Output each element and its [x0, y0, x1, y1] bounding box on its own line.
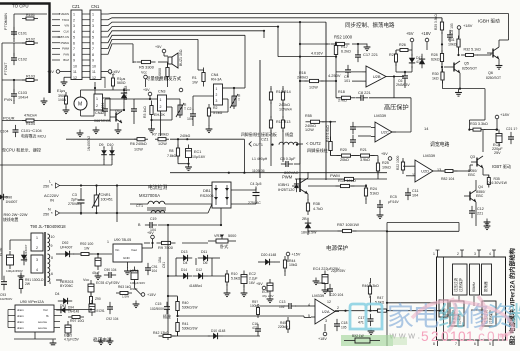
svg-text:4.016V: 4.016V [311, 52, 323, 56]
svg-text:3: 3 [73, 24, 75, 28]
wire [176, 257, 178, 259]
op-amp U2D [411, 160, 437, 182]
wire [145, 79, 147, 87]
svg-text:R24: R24 [370, 187, 377, 191]
vertical feed to SMPS [116, 186, 118, 223]
svg-text:过热保护: 过热保护 [458, 277, 463, 292]
terminal +15V mid [286, 252, 290, 256]
svg-text:0: 0 [458, 329, 466, 344]
wire [170, 138, 187, 140]
svg-text:EBC: EBC [468, 173, 476, 177]
wire [9, 240, 11, 250]
svg-text:四脚接线柱: 四脚接线柱 [241, 132, 260, 137]
svg-text:102/500V: 102/500V [0, 297, 12, 301]
wire [352, 43, 358, 45]
svg-text:CZ1: CZ1 [72, 4, 81, 9]
capacitor C5 [281, 161, 293, 167]
svg-text:同步控制、振荡电路: 同步控制、振荡电路 [345, 21, 395, 29]
svg-text:250: 250 [43, 213, 49, 217]
chevron OUT1 [249, 142, 252, 147]
wire PVN [2, 79, 26, 81]
svg-text:4: 4 [489, 252, 491, 256]
svg-text:过压过流: 过压过流 [453, 277, 458, 292]
electrolytic EC4 [322, 271, 328, 288]
wire [223, 98, 229, 100]
wire [270, 102, 272, 118]
resistor R47 5.6k [373, 309, 391, 312]
svg-text:C101~C104: C101~C104 [21, 129, 42, 133]
wire [109, 117, 111, 121]
wire down C101 [13, 14, 15, 36]
wire PWM row [295, 178, 387, 180]
svg-text:PVN: PVN [4, 97, 12, 102]
wire [458, 48, 460, 55]
svg-text:11: 11 [92, 70, 96, 74]
capacitor C90 104 [104, 272, 116, 278]
svg-text:250: 250 [43, 185, 49, 189]
svg-text:+5V: +5V [155, 45, 162, 49]
resistor R63 [116, 292, 132, 295]
capacitor C103 [11, 89, 17, 101]
capacitor C1 104 [131, 104, 137, 116]
svg-text:9: 9 [73, 59, 75, 63]
wire [134, 281, 136, 288]
AC line L [60, 185, 213, 187]
bus drop x278 [277, 27, 279, 57]
capacitor C18 105 [334, 319, 340, 331]
svg-text:1/4W: 1/4W [58, 98, 67, 102]
svg-text:BX2 1W: BX2 1W [352, 334, 364, 338]
svg-text:PWM: PWM [282, 175, 293, 180]
ground EC94 [133, 301, 140, 308]
wire [369, 278, 371, 283]
junction on y172 wire [228, 172, 230, 174]
bus wire from CN1 pin6 [101, 35, 245, 42]
svg-text:CT1: CT1 [136, 204, 143, 208]
AC line N to bridge [208, 204, 212, 213]
ground Q6 [496, 62, 503, 69]
capacitor C13 101 [284, 303, 296, 309]
svg-text:PTOMAIN: PTOMAIN [4, 13, 8, 30]
diode D10 [208, 333, 222, 339]
svg-text:source: source [38, 320, 47, 324]
wire [270, 86, 272, 90]
svg-text:R17: R17 [341, 45, 348, 49]
wire feedback row ext [394, 97, 411, 99]
wire Q3 collector up [482, 130, 484, 152]
wire +18V down [426, 42, 428, 50]
svg-text:drain: drain [17, 314, 24, 318]
resistor R57 100 1W [338, 229, 357, 232]
wire 78L05 out [142, 247, 153, 249]
svg-text:530kΩ/1W: 530kΩ/1W [182, 327, 198, 331]
svg-text:2: 2 [337, 306, 339, 310]
electrolytic EC93 [88, 280, 94, 296]
resistor R1 560 [112, 74, 115, 90]
svg-text:IGBH 驱动: IGBH 驱动 [478, 18, 500, 25]
svg-text:20kΩ: 20kΩ [340, 158, 349, 162]
zener diode D8 [305, 218, 311, 232]
thermistor RT2 [230, 93, 238, 109]
svg-text:U90 VIPer12A: U90 VIPer12A [20, 300, 44, 304]
wire [222, 335, 260, 337]
wire [371, 155, 378, 157]
wire [133, 99, 135, 104]
resistor R44 [283, 256, 286, 272]
svg-text:U2C: U2C [381, 130, 389, 135]
wire [177, 139, 179, 148]
svg-text:C2: C2 [187, 107, 192, 111]
regulator internal pin labels [115, 248, 137, 260]
bus wire from CN1 pin3 [101, 22, 300, 25]
secondary coil upper [48, 234, 50, 251]
svg-text:5: 5 [73, 36, 75, 40]
svg-text:FAN: FAN [64, 52, 69, 56]
svg-text:2: 2 [92, 18, 94, 22]
ground [377, 212, 384, 219]
svg-text:C5 0.3μF: C5 0.3μF [280, 157, 296, 161]
wire [56, 253, 60, 255]
svg-text:LM339: LM339 [423, 153, 436, 158]
svg-text:3: 3 [325, 319, 327, 323]
wire [110, 109, 124, 111]
svg-text:22μF/25V: 22μF/25V [331, 269, 346, 273]
svg-text:R46 3.3kΩ: R46 3.3kΩ [362, 284, 379, 288]
wire [93, 253, 112, 255]
svg-text:+5V: +5V [47, 70, 54, 74]
svg-text:C3: C3 [72, 193, 77, 197]
wire Q4 emitter [475, 202, 477, 226]
svg-text:*: * [51, 211, 53, 216]
long vertical x387 [386, 223, 388, 347]
capacitor C1b [102, 104, 108, 116]
resistor R24 51k [364, 184, 367, 200]
svg-text:6A 6800: 6A 6800 [158, 68, 162, 81]
resistor R9 7500 [157, 241, 176, 244]
svg-text:C12: C12 [477, 207, 484, 211]
svg-text:调宽电路: 调宽电路 [430, 141, 449, 148]
ground top U2A [313, 278, 320, 285]
svg-text:560Ω: 560Ω [117, 81, 126, 85]
diode D5 [121, 88, 127, 102]
svg-text:C19: C19 [150, 217, 156, 221]
svg-text:60kHz: 60kHz [472, 282, 476, 292]
wire R6 row left [66, 138, 137, 140]
long vertical wire x168 [167, 225, 169, 340]
terminal +5V top right [410, 38, 414, 42]
svg-text:105: 105 [341, 326, 347, 330]
connector CN1 [90, 10, 101, 80]
svg-text:C91: C91 [162, 262, 166, 268]
wire [208, 120, 210, 126]
electrolytic EC92 [95, 254, 101, 270]
wire [483, 174, 489, 176]
wire [177, 156, 179, 164]
ground EC3 [267, 296, 274, 303]
ground EC2 [241, 290, 248, 297]
wire [111, 159, 113, 165]
capacitor C17 221 [355, 50, 361, 62]
wire R25 to PWM row [377, 171, 379, 179]
wire [287, 256, 289, 262]
ground [364, 44, 371, 51]
svg-text:< OUT2: < OUT2 [306, 141, 321, 146]
svg-text:TxMAIN: TxMAIN [59, 12, 69, 16]
svg-text:R31: R31 [448, 38, 455, 42]
svg-text:1/2Wx4: 1/2Wx4 [279, 108, 292, 112]
svg-text:Q6: Q6 [488, 71, 493, 75]
inductor L heating coil [279, 142, 298, 144]
svg-text:6: 6 [51, 272, 53, 276]
svg-text:VR1: VR1 [214, 234, 221, 238]
resistor R25 [376, 159, 379, 175]
svg-text:4: 4 [36, 268, 38, 272]
wire [335, 57, 337, 68]
junction [94, 87, 96, 89]
svg-text:C90 104: C90 104 [104, 268, 117, 272]
terminal +18V top right [425, 38, 429, 42]
transformer core lines [43, 232, 45, 286]
capacitor C16 [255, 324, 261, 336]
svg-text:R97 10Ω: R97 10Ω [70, 319, 84, 323]
svg-text:烧线电置: 烧线电置 [3, 217, 19, 222]
wire to Q6 base [477, 54, 491, 56]
svg-text:1: 1 [160, 98, 162, 102]
IGBT IGBH1 [292, 178, 308, 194]
transformer T90 primary winding box upper [31, 233, 43, 251]
wire [395, 62, 397, 72]
svg-text:100μF/450V: 100μF/450V [6, 269, 24, 273]
resistor R4 6800 [166, 63, 169, 81]
svg-text:62kΩ: 62kΩ [431, 58, 440, 62]
svg-text:EC93 47μF/25V: EC93 47μF/25V [96, 281, 120, 285]
resistor R18 27k [337, 96, 356, 99]
terminal +18V Q5 [457, 26, 461, 30]
wire CN3 down [160, 111, 162, 136]
svg-text:CNR1: CNR1 [101, 193, 111, 197]
svg-text:POUR: POUR [3, 116, 15, 121]
resistor R10 5.6k [225, 270, 228, 286]
svg-text:4.7kΩ: 4.7kΩ [313, 207, 323, 211]
wire [151, 120, 153, 126]
svg-text:PWM: PWM [62, 47, 70, 51]
svg-text:101: 101 [344, 79, 350, 83]
resistor R19 5.6k [329, 137, 332, 156]
svg-text:R41: R41 [182, 322, 188, 326]
wire [406, 175, 411, 177]
wire [358, 43, 367, 45]
bridge DB1 internal diodes [214, 185, 229, 205]
ground Q4 [484, 219, 491, 226]
resistor R103 [22, 79, 38, 82]
svg-text:6: 6 [73, 41, 75, 45]
svg-text:7: 7 [73, 47, 75, 51]
diode D17 [409, 54, 415, 68]
svg-text:R12 R14: R12 R14 [276, 90, 291, 94]
resistor R29 [440, 18, 443, 34]
svg-text:2: 2 [216, 93, 218, 97]
capacitor C10b [350, 135, 356, 147]
op-amp U2C [371, 122, 396, 142]
resistor R104 [22, 119, 38, 122]
wire to R19 node [322, 121, 336, 123]
svg-text:TXD2: TXD2 [62, 18, 70, 22]
svg-text:10: 10 [51, 235, 55, 239]
ground [206, 126, 213, 133]
wire feedback [369, 97, 394, 99]
svg-text:+18V: +18V [318, 337, 327, 341]
block border right [325, 22, 327, 180]
svg-text:104: 104 [412, 194, 418, 198]
svg-text:10: 10 [92, 64, 96, 68]
wire Q5 emitter down [459, 73, 461, 89]
svg-text:UF4007: UF4007 [60, 246, 73, 250]
svg-text:C15: C15 [155, 302, 161, 306]
svg-text:104x4: 104x4 [18, 96, 28, 100]
block modulator box [482, 264, 492, 295]
wire [308, 230, 342, 232]
svg-text:47kΩx4: 47kΩx4 [24, 114, 37, 118]
resistor R27 [395, 50, 398, 66]
wire R46 chain [369, 296, 371, 311]
svg-text:10: 10 [73, 64, 77, 68]
block 60kHz osc box [470, 264, 480, 295]
wire to U2A [178, 315, 261, 317]
wire protect row [274, 261, 280, 263]
resistor R32 5.1k [461, 54, 478, 57]
wire to U2B plus [352, 80, 362, 82]
svg-text:R102: R102 [26, 38, 35, 42]
svg-text:4.7μF/25V: 4.7μF/25V [64, 338, 80, 342]
wire y231 [387, 230, 459, 232]
svg-text:D20 4148: D20 4148 [261, 253, 276, 257]
svg-text:R38: R38 [313, 202, 320, 206]
diode D92 [60, 251, 74, 257]
svg-text:104: 104 [187, 117, 193, 121]
svg-text:1W: 1W [84, 247, 90, 251]
svg-text:C4 2μ5: C4 2μ5 [250, 182, 261, 186]
wire [379, 200, 381, 203]
svg-text:电流检测: 电流检测 [148, 184, 167, 191]
svg-text:16V: 16V [249, 281, 256, 285]
resistor R22 1000 [401, 158, 404, 174]
terminal node circle [179, 88, 183, 92]
svg-text:1/2W: 1/2W [309, 86, 318, 90]
wire [352, 155, 359, 157]
capacitor C101 [11, 27, 17, 39]
svg-text:EBC: EBC [476, 194, 484, 198]
wire U2B out [390, 76, 404, 78]
diode D10 [109, 146, 115, 160]
wire U2C out up [410, 98, 412, 132]
wire [294, 163, 300, 165]
wire [144, 242, 150, 244]
wire [103, 159, 105, 165]
svg-text:2B: 2B [302, 217, 307, 221]
svg-text:+15V: +15V [147, 293, 156, 297]
svg-text:5000: 5000 [228, 234, 236, 238]
current transformer CT1 secondary [151, 211, 165, 213]
electrolytic EC94 [131, 267, 138, 284]
wire [177, 296, 179, 301]
svg-text:C102: C102 [18, 58, 27, 62]
resistor Z90 [90, 293, 93, 307]
wire POUR [2, 120, 26, 122]
capacitor C2 104 [190, 109, 196, 121]
wire [324, 283, 326, 285]
block driver box [482, 301, 496, 326]
svg-text:5.1kΩ: 5.1kΩ [213, 111, 223, 115]
thick border to CPU section [0, 4, 50, 94]
svg-text:R3 1kΩ: R3 1kΩ [143, 106, 147, 118]
motor M circle [74, 97, 87, 110]
svg-text:1: 1 [92, 13, 94, 17]
svg-text:R104: R104 [26, 122, 35, 126]
svg-text:R10: R10 [231, 272, 237, 276]
wire IGBT emitter [307, 194, 309, 200]
wire [103, 147, 105, 148]
wire [330, 122, 332, 141]
diode D13 [178, 255, 192, 261]
wire [105, 98, 134, 100]
wire 78L05 gnd [127, 262, 129, 268]
capacitor C92 104 [107, 302, 113, 314]
svg-text:1: 1 [73, 13, 75, 17]
svg-text:LM339: LM339 [312, 293, 325, 298]
svg-text:U2D: U2D [421, 169, 429, 174]
svg-text:D12: D12 [196, 268, 202, 272]
current transformer CT1 primary [148, 201, 165, 204]
svg-text:drain: drain [17, 320, 24, 324]
wire [13, 43, 15, 56]
watermark pink swirl stamp [412, 296, 513, 336]
svg-text:8: 8 [92, 53, 94, 57]
svg-text:IH25T120: IH25T120 [278, 188, 294, 192]
svg-text:D13: D13 [181, 250, 187, 254]
svg-text:drain: drain [17, 308, 24, 312]
watermark green band component BX2 [344, 334, 380, 343]
ground [50, 340, 57, 347]
svg-text:104: 104 [152, 269, 158, 273]
resistor R3 1k [150, 101, 153, 120]
wire [260, 305, 285, 307]
block internal connect wires [444, 296, 485, 315]
svg-text:R5 3300: R5 3300 [139, 65, 155, 70]
capacitor C11 104 [405, 188, 411, 200]
svg-text:2N3/63V: 2N3/63V [396, 83, 410, 87]
block top pin leads [433, 250, 496, 257]
svg-text:240kΩ: 240kΩ [279, 103, 290, 107]
svg-text:1: 1 [36, 236, 38, 240]
svg-text:7: 7 [92, 47, 94, 51]
block border top [300, 21, 326, 23]
wire drop x485 to R33 row [484, 89, 486, 120]
block diagram VIPer12A outline [437, 257, 506, 340]
wire [396, 71, 412, 73]
svg-text:C11: C11 [412, 189, 419, 193]
bus wire from CN1 pin7 [101, 39, 198, 48]
svg-text:C8 103: C8 103 [450, 23, 454, 34]
svg-text:Vout: Vout [131, 248, 137, 252]
bus drop x133 to speaker driver [132, 44, 134, 63]
resistor R15 10k [336, 184, 355, 187]
svg-text:1: 1 [450, 329, 458, 344]
AC line N [60, 212, 209, 214]
capacitor C20 104 [327, 284, 333, 296]
svg-text:RS2006: RS2006 [200, 194, 214, 198]
bridge rectifier DB1 [212, 182, 231, 208]
svg-text:1/2W: 1/2W [305, 128, 314, 132]
